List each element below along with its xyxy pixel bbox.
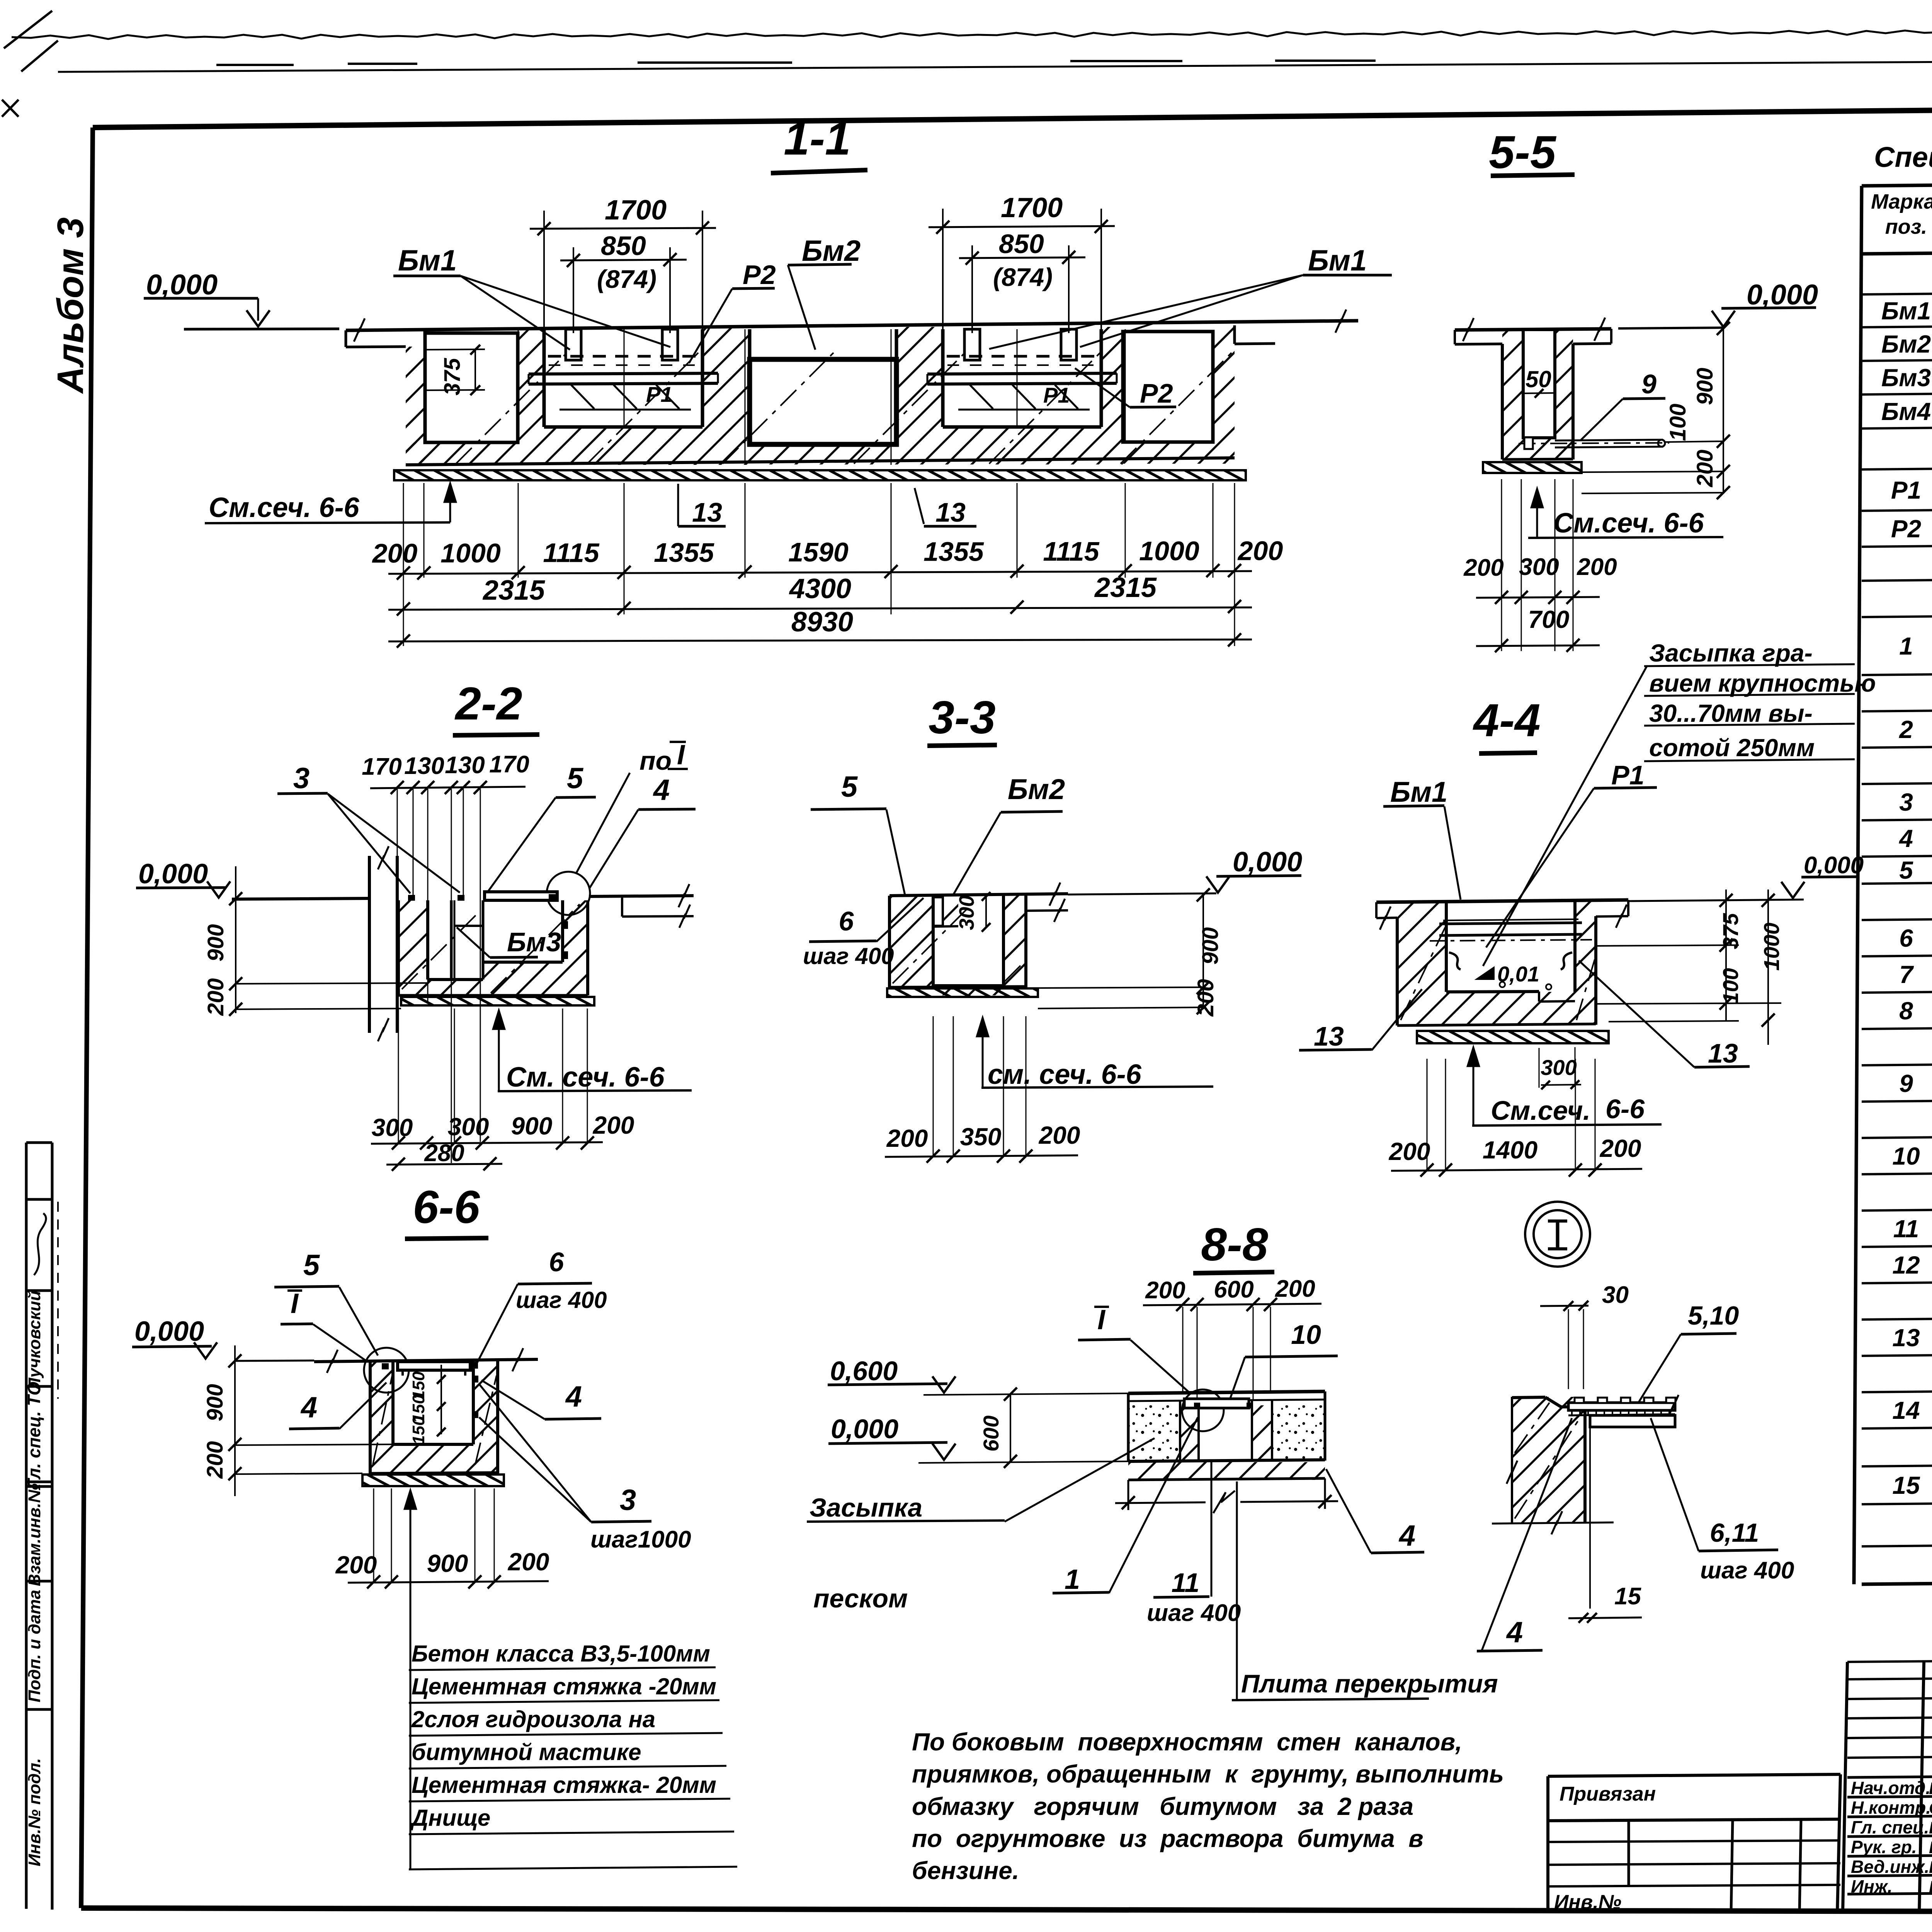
svg-text:Боровик: Боровик [1929, 1838, 1932, 1857]
svg-text:2315: 2315 [482, 575, 545, 606]
svg-text:Подп. и дата: Подп. и дата [25, 1590, 44, 1702]
svg-text:Вед.инж.: Вед.инж. [1851, 1857, 1929, 1877]
svg-text:900: 900 [202, 1384, 228, 1422]
svg-text:9: 9 [1899, 1070, 1913, 1097]
svg-text:6: 6 [839, 906, 854, 936]
svg-text:4: 4 [653, 774, 670, 806]
svg-text:100: 100 [1665, 404, 1690, 441]
svg-text:4: 4 [565, 1380, 582, 1413]
svg-text:Бм1: Бм1 [1390, 776, 1447, 808]
svg-text:300: 300 [448, 1113, 489, 1141]
svg-text:4-4: 4-4 [1473, 694, 1540, 746]
svg-text:I: I [1097, 1304, 1106, 1335]
svg-text:по: по [639, 746, 672, 776]
svg-text:1700: 1700 [1001, 192, 1063, 223]
svg-text:11: 11 [1172, 1568, 1200, 1598]
svg-text:Р1: Р1 [1611, 760, 1645, 790]
svg-text:900: 900 [511, 1112, 553, 1140]
svg-text:См.сеч. 6-6: См.сеч. 6-6 [209, 492, 360, 523]
svg-text:300: 300 [1541, 1055, 1577, 1080]
svg-text:1700: 1700 [605, 195, 667, 226]
svg-text:200: 200 [372, 538, 418, 568]
svg-text:280: 280 [424, 1140, 464, 1167]
svg-text:30: 30 [1602, 1282, 1629, 1308]
svg-text:Бм2: Бм2 [1881, 330, 1931, 358]
svg-text:песком: песком [813, 1584, 908, 1613]
svg-text:по огрунтовке из раствора: по огрунтовке из раствора битума в [912, 1825, 1423, 1852]
svg-text:3: 3 [293, 762, 310, 795]
svg-text:200: 200 [1145, 1277, 1185, 1304]
svg-text:Р1: Р1 [1043, 383, 1070, 407]
svg-text:Альбом 3: Альбом 3 [50, 217, 91, 394]
svg-text:200: 200 [203, 978, 228, 1016]
svg-text:Бм4: Бм4 [1881, 398, 1931, 425]
svg-text:Бм2: Бм2 [1008, 773, 1065, 805]
svg-text:Н.контр.: Н.контр. [1851, 1798, 1931, 1818]
svg-text:4: 4 [1898, 825, 1913, 852]
svg-text:13: 13 [692, 497, 722, 527]
svg-text:30...70мм вы-: 30...70мм вы- [1649, 699, 1813, 727]
svg-text:5: 5 [841, 770, 858, 803]
svg-text:(874): (874) [993, 263, 1053, 291]
svg-text:9: 9 [1641, 369, 1656, 399]
svg-text:130: 130 [404, 753, 444, 779]
svg-text:Гл. спец. ТО: Гл. спец. ТО [24, 1382, 44, 1490]
svg-text:0,000: 0,000 [831, 1414, 898, 1444]
svg-text:4: 4 [300, 1391, 317, 1424]
svg-text:2: 2 [1899, 716, 1913, 743]
svg-text:5: 5 [567, 762, 584, 795]
svg-text:12: 12 [1892, 1251, 1920, 1279]
svg-text:Бм2: Бм2 [802, 235, 861, 267]
svg-text:5: 5 [1899, 856, 1913, 884]
svg-text:200: 200 [1039, 1121, 1080, 1149]
svg-text:Инв.№ подл.: Инв.№ подл. [25, 1758, 44, 1866]
svg-text:5,10: 5,10 [1688, 1301, 1739, 1330]
svg-text:Бм1: Бм1 [1881, 297, 1931, 325]
svg-text:600: 600 [1214, 1276, 1253, 1303]
svg-text:8-8: 8-8 [1201, 1219, 1268, 1270]
svg-text:Спецификация к схеме распо: Спецификация к схеме расположения канало… [1874, 141, 1932, 173]
svg-text:4300: 4300 [789, 573, 851, 604]
svg-text:10: 10 [1291, 1320, 1321, 1350]
svg-text:6-6: 6-6 [413, 1181, 480, 1233]
svg-text:См.сеч. 6-6: См.сеч. 6-6 [1553, 508, 1704, 539]
svg-text:200: 200 [1600, 1134, 1641, 1162]
svg-text:Бетон класса В3,5-100мм: Бетон класса В3,5-100мм [412, 1641, 710, 1667]
svg-text:200: 200 [1692, 450, 1718, 488]
svg-text:8: 8 [1899, 997, 1913, 1025]
svg-text:6: 6 [549, 1247, 565, 1277]
svg-text:13: 13 [1892, 1324, 1920, 1352]
svg-text:Р1: Р1 [646, 382, 673, 406]
svg-text:200: 200 [593, 1111, 634, 1139]
svg-text:бензине.: бензине. [912, 1857, 1019, 1884]
svg-text:8930: 8930 [791, 607, 853, 638]
svg-text:Р2: Р2 [1140, 378, 1173, 408]
svg-text:Лучковский: Лучковский [25, 1291, 44, 1391]
svg-text:700: 700 [1528, 605, 1570, 633]
svg-text:130: 130 [445, 752, 485, 779]
svg-text:приямков, обращенным к грунт: приямков, обращенным к грунту, выполнить [912, 1760, 1504, 1788]
svg-text:шаг1000: шаг1000 [590, 1526, 691, 1553]
svg-text:1-1: 1-1 [784, 113, 850, 165]
svg-text:шаг 400: шаг 400 [1147, 1600, 1241, 1626]
svg-text:170: 170 [489, 751, 529, 778]
svg-text:350: 350 [960, 1123, 1002, 1151]
svg-text:Инв.№: Инв.№ [1554, 1891, 1621, 1913]
svg-text:170: 170 [362, 753, 401, 780]
svg-text:7: 7 [1899, 961, 1914, 988]
svg-text:200: 200 [508, 1548, 549, 1576]
svg-text:1355: 1355 [923, 537, 984, 567]
svg-text:900: 900 [1198, 927, 1223, 965]
svg-text:5: 5 [303, 1249, 320, 1282]
svg-text:900: 900 [1692, 368, 1718, 405]
svg-text:2слоя гидроизола на: 2слоя гидроизола на [411, 1706, 655, 1732]
svg-text:1000: 1000 [1139, 536, 1199, 566]
svg-text:6: 6 [1899, 924, 1913, 952]
svg-text:1115: 1115 [543, 538, 599, 568]
svg-text:600: 600 [979, 1415, 1003, 1451]
svg-text:По боковым поверхностям стен: По боковым поверхностям стен каналов, [912, 1728, 1462, 1756]
svg-text:Привязан: Привязан [1560, 1783, 1656, 1805]
svg-text:15: 15 [1614, 1583, 1641, 1610]
svg-text:Цементная стяжка- 20мм: Цементная стяжка- 20мм [412, 1772, 716, 1798]
svg-text:Рук. гр.: Рук. гр. [1851, 1837, 1917, 1857]
svg-text:0,600: 0,600 [830, 1356, 898, 1386]
svg-text:6-6: 6-6 [1605, 1094, 1645, 1124]
svg-text:2315: 2315 [1094, 572, 1157, 603]
svg-text:1355: 1355 [654, 537, 714, 568]
svg-text:Р1: Р1 [1891, 476, 1921, 504]
svg-text:вием крупностью: вием крупностью [1649, 669, 1876, 697]
svg-text:4: 4 [1398, 1519, 1415, 1552]
svg-text:200: 200 [1463, 554, 1503, 581]
svg-text:Марка,: Марка, [1871, 190, 1932, 213]
svg-text:см. сеч. 6-6: см. сеч. 6-6 [988, 1059, 1142, 1090]
svg-text:850: 850 [999, 229, 1044, 259]
svg-text:200: 200 [1389, 1138, 1430, 1165]
svg-text:13: 13 [1708, 1038, 1738, 1068]
svg-text:100: 100 [1718, 968, 1743, 1004]
svg-text:850: 850 [601, 231, 646, 261]
svg-text:поз.: поз. [1885, 215, 1927, 238]
svg-text:Шейко: Шейко [1929, 1779, 1932, 1798]
svg-text:Нач.отд.: Нач.отд. [1851, 1778, 1930, 1798]
svg-text:Власенко: Власенко [1929, 1818, 1932, 1837]
svg-text:4: 4 [1506, 1616, 1523, 1649]
svg-text:300: 300 [372, 1114, 413, 1141]
svg-text:200: 200 [1237, 536, 1283, 566]
svg-text:50: 50 [1526, 366, 1551, 392]
svg-text:13: 13 [935, 497, 966, 527]
svg-text:Днище: Днище [410, 1805, 490, 1831]
svg-text:3: 3 [1899, 788, 1913, 816]
svg-text:3-3: 3-3 [929, 692, 995, 743]
svg-text:200: 200 [202, 1441, 228, 1479]
svg-text:Гл. спец.: Гл. спец. [1851, 1817, 1929, 1837]
svg-text:обмазку горячим битумом: обмазку горячим битумом за 2 раза [912, 1793, 1413, 1820]
svg-text:375: 375 [1718, 913, 1743, 949]
svg-text:Шапин: Шапин [1929, 1878, 1932, 1896]
svg-text:900: 900 [427, 1549, 468, 1577]
svg-text:200: 200 [335, 1551, 377, 1579]
svg-text:1000: 1000 [1759, 923, 1784, 971]
svg-text:0,000: 0,000 [146, 269, 218, 301]
svg-text:10: 10 [1892, 1142, 1920, 1170]
svg-text:0,000: 0,000 [134, 1316, 204, 1347]
svg-text:Бм3: Бм3 [1881, 364, 1931, 392]
svg-text:Бм3: Бм3 [507, 927, 561, 957]
svg-text:Шмандий: Шмандий [1929, 1858, 1932, 1877]
svg-text:11: 11 [1893, 1215, 1919, 1243]
svg-text:шаг 400: шаг 400 [1700, 1557, 1794, 1584]
svg-text:шаг 400: шаг 400 [803, 943, 894, 969]
svg-text:1590: 1590 [788, 537, 849, 567]
svg-text:15: 15 [1892, 1471, 1920, 1499]
svg-text:0,000: 0,000 [1804, 852, 1864, 879]
svg-text:1400: 1400 [1483, 1136, 1537, 1164]
svg-text:битумной мастике: битумной мастике [412, 1739, 641, 1765]
svg-text:900: 900 [203, 924, 228, 962]
svg-text:0,000: 0,000 [1747, 279, 1818, 311]
svg-text:Плита перекрытия: Плита перекрытия [1241, 1669, 1498, 1698]
svg-text:6,11: 6,11 [1710, 1518, 1759, 1548]
svg-text:См. сеч. 6-6: См. сеч. 6-6 [506, 1062, 665, 1093]
svg-text:Засыпка гра-: Засыпка гра- [1649, 639, 1813, 667]
svg-text:2-2: 2-2 [454, 678, 522, 730]
svg-text:200: 200 [1577, 554, 1617, 580]
svg-text:1: 1 [1065, 1564, 1080, 1595]
svg-text:I: I [291, 1288, 299, 1319]
svg-text:300: 300 [1519, 554, 1559, 580]
svg-text:Бм1: Бм1 [1308, 244, 1367, 277]
svg-text:шаг 400: шаг 400 [516, 1287, 607, 1313]
svg-text:Сокольская: Сокольская [1929, 1799, 1932, 1818]
svg-text:(874): (874) [597, 265, 656, 293]
svg-text:1000: 1000 [440, 538, 501, 568]
svg-text:сотой 250мм: сотой 250мм [1649, 734, 1815, 762]
svg-text:Бм1: Бм1 [398, 244, 457, 277]
svg-text:I: I [677, 740, 685, 770]
svg-text:3: 3 [620, 1484, 636, 1517]
svg-text:Инж.: Инж. [1851, 1876, 1893, 1896]
svg-text:300: 300 [955, 895, 978, 930]
svg-text:Взам.инв.№: Взам.инв.№ [25, 1483, 44, 1586]
svg-text:0,000: 0,000 [1233, 847, 1302, 878]
svg-text:13: 13 [1314, 1021, 1344, 1051]
svg-text:150: 150 [409, 1416, 428, 1445]
svg-text:14: 14 [1892, 1396, 1920, 1424]
svg-text:0,000: 0,000 [138, 859, 208, 889]
svg-text:Цементная стяжка -20мм: Цементная стяжка -20мм [412, 1673, 716, 1699]
svg-text:200: 200 [1193, 979, 1218, 1017]
svg-text:Р2: Р2 [1891, 515, 1921, 543]
svg-text:1115: 1115 [1043, 536, 1099, 566]
svg-text:200: 200 [886, 1124, 928, 1152]
svg-text:5-5: 5-5 [1489, 126, 1557, 178]
svg-text:Засыпка: Засыпка [810, 1493, 922, 1522]
svg-text:200: 200 [1275, 1276, 1315, 1302]
svg-text:1: 1 [1899, 632, 1913, 660]
svg-text:Р2: Р2 [743, 260, 776, 290]
